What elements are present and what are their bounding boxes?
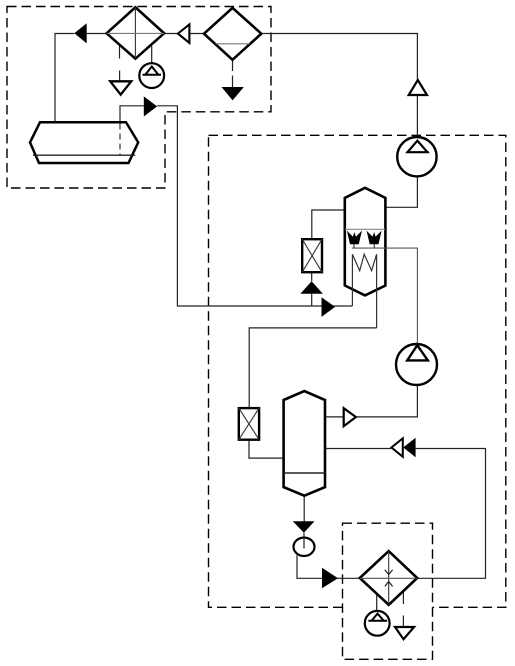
valve hollow left triangle (between D1 and D2) — [178, 24, 190, 43]
arrow filled right (into column bottom line) — [322, 297, 336, 317]
nozzle stems — [354, 244, 374, 249]
vent hollow down triangle (drain of D1) — [110, 81, 131, 94]
diamond D3 (bottom heat exchanger) — [360, 551, 417, 605]
diamond D2 level chord — [215, 43, 249, 45]
spray nozzle left — [348, 233, 361, 244]
wire: coil return line to filter F2 and vessel V2 — [249, 328, 377, 458]
dashed boundary box middle (bottom edge interrupted by small box) — [209, 135, 506, 607]
pump P2 impeller triangle — [406, 345, 429, 360]
wire: vessel V2 bottom outlet to orifice circle — [303, 496, 305, 548]
column C1 spray manifold — [352, 248, 418, 344]
filter F1 — [302, 239, 322, 272]
double check valve hollow part — [391, 438, 402, 457]
wire: filter F1 stem up into column left side — [312, 210, 345, 239]
pump P1 — [397, 137, 436, 176]
column C1 (upper vessel) — [345, 188, 386, 296]
pump P1 impeller triangle — [406, 141, 428, 153]
valve hollow right triangle (V2 to pump P2) — [344, 408, 356, 426]
vent hollow down triangle (bottom right) — [395, 627, 414, 639]
cooling coil zigzag — [352, 254, 376, 270]
vessel V2 (lower) — [284, 391, 325, 496]
double check valve filled part — [403, 438, 415, 457]
wire: vessel V2 upper stub through valve up to pump P2 suction — [325, 385, 417, 417]
wire: diamond D2 to check valve down right side — [261, 34, 417, 80]
pump P4 — [139, 63, 164, 88]
pump P2 — [396, 344, 437, 385]
dashed boundary box top-left (L-shaped) — [7, 7, 271, 189]
filter F2 — [239, 408, 259, 440]
wire: diamond D2 drain line with break — [232, 60, 234, 87]
diamond D3 converging arrow ticks — [385, 570, 393, 587]
spray nozzle right — [368, 233, 381, 244]
orifice circle inner stem — [303, 538, 305, 549]
diamond D3 through line — [360, 577, 417, 579]
arrow filled left (into hexagon feed) — [74, 23, 86, 43]
wire: check valve to pump P1 — [416, 95, 418, 137]
wire: diamond D1 to pump P4 — [151, 46, 153, 63]
column C1 tray line — [345, 228, 385, 230]
diamond D3 vertical line — [388, 551, 390, 605]
hexagon tank T1 — [30, 122, 138, 163]
wire: hexagon tank to descending transfer line — [120, 106, 352, 306]
pump P3 impeller triangle — [368, 614, 387, 621]
pump P4 impeller triangle — [143, 67, 162, 75]
wire: vessel V2 lower stub through double valve to long return riser — [325, 449, 486, 579]
arrow filled down (drain of D2) — [222, 87, 244, 100]
arrow filled down (V2 bottom outlet) — [293, 521, 315, 532]
orifice circle — [294, 538, 315, 556]
arrow filled right (into diamond D3) — [322, 568, 338, 589]
pump P3 — [365, 611, 390, 636]
wire: diamond D3 vent line with break — [402, 591, 404, 627]
coil right pipe — [376, 254, 378, 328]
coil left pipe — [351, 254, 353, 306]
wire: pump P1 discharge into top of column — [385, 177, 417, 208]
filter F1 X — [302, 239, 322, 272]
arrow filled right (tank transfer line) — [144, 96, 157, 116]
wire: feed line into hexagon tank — [55, 34, 107, 123]
wire: between diamond D1 and diamond D2 — [164, 33, 204, 35]
filter F2 X — [239, 408, 259, 440]
arrow filled up (under filter F1) — [300, 281, 323, 294]
hexagon tank level line — [33, 154, 135, 156]
wire: diamond D1 drain line with break — [119, 45, 121, 82]
check valve hollow up triangle (top right) — [409, 80, 427, 95]
diamond D1 heat exchanger — [107, 7, 165, 58]
hexagon dip tube (dashed) — [119, 124, 121, 156]
wire: orifice circle to bottom diamond D3 — [297, 555, 360, 578]
dashed boundary box bottom-right small — [343, 523, 433, 659]
diamond D1 vertical line — [134, 7, 136, 58]
vessel V2 level line — [284, 472, 325, 474]
diamond D1 through line — [107, 32, 165, 34]
wire: diamond D3 to pump P3 — [376, 594, 378, 611]
wire: stems of up-arrow under filter F1 — [311, 272, 313, 306]
diamond D2 separator — [204, 8, 261, 60]
